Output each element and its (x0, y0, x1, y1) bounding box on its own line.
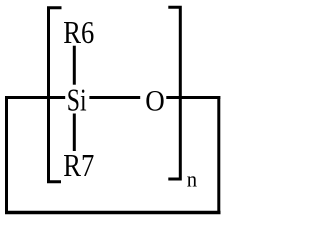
svg-text:R6: R6 (63, 14, 94, 50)
box top edge right segment (166, 96, 220, 99)
svg-text:Si: Si (67, 81, 87, 117)
bond R6-Si (73, 46, 76, 85)
svg-text:R7: R7 (63, 147, 94, 183)
svg-text:n: n (187, 167, 197, 192)
svg-text:O: O (145, 84, 165, 117)
bracket right (168, 7, 180, 179)
box bottom edge (5, 211, 221, 215)
box top edge left segment (5, 96, 65, 99)
bond Si-O (89, 96, 140, 99)
box right edge (217, 96, 220, 214)
bond Si-R7 (73, 114, 76, 152)
bracket left (49, 8, 62, 182)
box left edge (5, 96, 8, 214)
